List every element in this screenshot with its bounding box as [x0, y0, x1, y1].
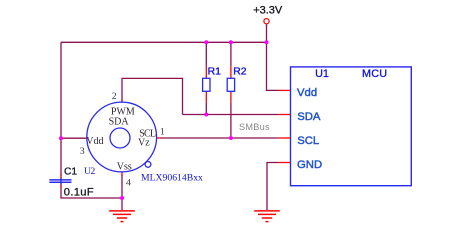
sensor U2 tab — [145, 162, 151, 168]
svg-text:SDA: SDA — [109, 117, 130, 128]
wire MCU GND to ground — [267, 163, 279, 211]
pin lead MCU SCL — [279, 137, 291, 139]
wire sensor Vss to ground — [121, 175, 123, 211]
junction R1 rail — [204, 40, 208, 44]
resistor R2 — [227, 78, 234, 91]
ground (sensor) — [109, 211, 135, 222]
pin lead sensor pin1 tip — [157, 137, 162, 139]
svg-text:Vdd: Vdd — [86, 136, 103, 147]
wire SDA line — [183, 114, 279, 116]
junction R1 SDA — [204, 113, 208, 117]
pin lead sensor pin3 tip — [85, 137, 88, 139]
pin lead R1 bottom — [205, 91, 207, 102]
svg-text:0.1uF: 0.1uF — [64, 187, 94, 199]
svg-text:SCL: SCL — [297, 135, 319, 147]
svg-text:U1: U1 — [315, 68, 329, 80]
pin lead R2 bottom — [230, 91, 232, 102]
wire to MCU Vdd — [267, 42, 279, 90]
svg-text:1: 1 — [160, 126, 165, 137]
wire +3.3V rail — [61, 41, 267, 43]
svg-text:Vz: Vz — [138, 138, 150, 149]
svg-text:3: 3 — [80, 146, 85, 157]
pin lead MCU GND — [279, 162, 291, 164]
junction at +3.3V rail — [265, 40, 269, 44]
junction R2 rail — [229, 40, 233, 44]
junction sensor Vdd — [59, 136, 63, 140]
svg-text:U2: U2 — [84, 167, 96, 177]
power terminal circle — [264, 19, 269, 24]
wire +3.3V stub — [266, 24, 268, 42]
svg-text:SMBus: SMBus — [239, 122, 270, 132]
junction Vss ground — [120, 196, 124, 200]
ground (MCU) — [254, 211, 280, 222]
svg-text:2: 2 — [112, 91, 117, 102]
svg-text:MLX90614Bxx: MLX90614Bxx — [141, 172, 203, 183]
svg-text:GND: GND — [297, 159, 322, 171]
op-amp U1 MCU box — [291, 67, 412, 186]
pin lead R1 top — [205, 66, 207, 78]
sensor U2 outer circle — [87, 102, 157, 172]
wire R2 bottom — [230, 103, 232, 138]
svg-text:+3.3V: +3.3V — [253, 5, 283, 17]
wire left column to C1 — [60, 42, 62, 176]
svg-text:Vss: Vss — [117, 162, 132, 173]
wire R1 bottom — [205, 103, 207, 115]
svg-text:MCU: MCU — [362, 68, 387, 80]
sensor U2 inner circle — [110, 128, 130, 148]
capacitor C1 — [49, 174, 71, 187]
svg-text:SDA: SDA — [297, 111, 321, 123]
svg-text:4: 4 — [126, 177, 131, 188]
pin lead sensor pin4 tip — [121, 172, 123, 176]
pin lead sensor pin2 tip — [121, 100, 123, 103]
wire SCL line — [161, 137, 279, 139]
wire sensor Vdd pin3 — [61, 137, 85, 139]
svg-text:Vdd: Vdd — [297, 87, 317, 99]
svg-text:R1: R1 — [208, 66, 222, 77]
resistor R1 — [203, 78, 210, 91]
pin lead R2 top — [230, 66, 232, 78]
svg-text:R2: R2 — [233, 66, 247, 77]
wire sensor PWM/SDA to SDA line — [122, 78, 183, 114]
wire C1 bottom to Vss — [61, 186, 122, 198]
svg-text:C1: C1 — [64, 167, 77, 178]
wire R1 top — [205, 42, 207, 66]
pin lead MCU Vdd — [279, 89, 291, 91]
wire R2 top — [230, 42, 232, 66]
pin lead MCU SDA — [279, 114, 291, 116]
junction R2 SCL — [229, 136, 233, 140]
